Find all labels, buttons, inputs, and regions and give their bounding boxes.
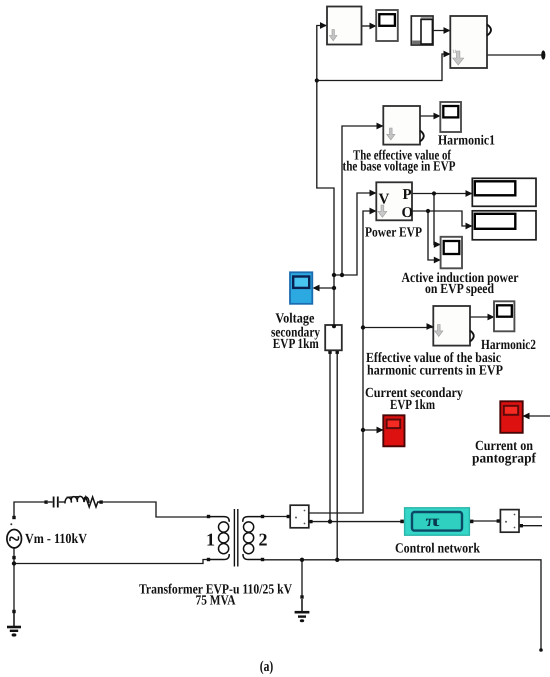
svg-text:2: 2 bbox=[259, 530, 268, 550]
wire RLC branch to transformer primary top bbox=[101, 502, 207, 517]
scope Current secondary EVP 1km (red) bbox=[383, 415, 404, 446]
wire CM1 output to Control network bbox=[311, 521, 402, 523]
arrowhead into Scope1 bbox=[370, 23, 377, 30]
block voltage measurement VM bbox=[325, 324, 342, 350]
wire bottom-left return bus bbox=[14, 546, 207, 564]
wire voltage-measure trunk (V signal up to RMS1) bbox=[317, 26, 334, 326]
wire branch to red scope Current secondary bbox=[363, 429, 383, 431]
label Vm - 110kV bbox=[25, 532, 87, 547]
block pi section line Control network bbox=[405, 508, 470, 535]
svg-text:(a): (a) bbox=[260, 659, 274, 675]
block U3 effective value of base voltage bbox=[383, 106, 423, 145]
port square Control network left bbox=[400, 520, 404, 524]
port square RLC left bbox=[44, 500, 47, 503]
label Power EVP bbox=[365, 226, 422, 241]
junction node P branch bbox=[432, 191, 436, 195]
arrowhead into Power EVP input 2 bbox=[370, 208, 377, 215]
svg-text:Control network: Control network bbox=[395, 542, 480, 557]
label Harmonic2 bbox=[481, 338, 536, 353]
junction node source at return bus bbox=[12, 561, 16, 565]
display Display1 bbox=[472, 178, 536, 206]
label Current on pantograpf bbox=[472, 439, 536, 467]
wire transformer secondary top to current measure CM1 bbox=[264, 516, 290, 518]
svg-text:the base voltage in EVP: the base voltage in EVP bbox=[343, 160, 456, 175]
wire V signal to Power EVP input V bbox=[334, 193, 376, 275]
wire selector to subsystem U2 upper input bbox=[433, 30, 450, 32]
arrowhead into blue scope bbox=[313, 285, 320, 292]
junction node measure lead B on bus bbox=[335, 558, 339, 562]
arrowhead into scope Harmonic1 bbox=[434, 113, 441, 120]
port square ground2 lead bbox=[300, 595, 303, 598]
wire secondary return bus to right and down bbox=[264, 560, 541, 650]
arrowhead into U3 bbox=[377, 123, 384, 130]
port square Control network right bbox=[470, 520, 474, 524]
svg-text:Harmonic1: Harmonic1 bbox=[438, 134, 495, 149]
port square transformer secondary bottom bbox=[261, 558, 264, 561]
port square CM2 input bbox=[497, 519, 500, 522]
arrowhead into red scope Current on pantograpf bbox=[523, 413, 530, 420]
node end cap of bus lower right bbox=[539, 648, 543, 652]
arrowhead into red scope Current secondary bbox=[377, 427, 384, 434]
label Current secondary EVP 1km bbox=[365, 386, 463, 413]
port square transformer secondary top bbox=[261, 515, 264, 518]
block selector (buffer) bbox=[411, 16, 433, 45]
arrowhead into scope Harmonic2 bbox=[488, 314, 495, 321]
port square source top bbox=[12, 516, 15, 519]
arrowhead into scope U5 input 2 bbox=[434, 257, 441, 264]
port square transformer primary top bbox=[207, 515, 210, 518]
arrowhead into Display2 bbox=[466, 223, 473, 230]
scope Harmonic1 bbox=[440, 102, 461, 132]
wire branch to effective-currents block U4 bbox=[363, 327, 433, 329]
label Effective value of the basic harmonic currents in EVP bbox=[366, 351, 503, 379]
RLC branch resistor bbox=[84, 497, 101, 507]
transformer secondary winding bbox=[243, 517, 262, 560]
label Transformer EVP-u 110/25 kV 75 MVA bbox=[139, 582, 292, 608]
junction node current trunk to red scope bbox=[361, 428, 365, 432]
svg-text:V: V bbox=[379, 192, 390, 208]
arrowhead into Power EVP input V bbox=[370, 190, 377, 197]
block current measurement CM1 bbox=[290, 505, 309, 528]
arrowhead into U4 bbox=[427, 323, 434, 330]
junction node V trunk at Power branch bbox=[332, 273, 336, 277]
port square voltage-measure lead B bbox=[336, 351, 339, 354]
wire effective-currents U4 to scope Harmonic2 bbox=[470, 316, 494, 318]
wire voltage-measure lead A bbox=[329, 352, 331, 522]
AC source Vm bbox=[7, 523, 22, 548]
label Active induction power on EVP speed bbox=[402, 271, 519, 297]
transformer primary winding bbox=[210, 517, 229, 560]
scope Current on pantograpf (red) bbox=[500, 401, 522, 433]
wire from right edge into red scope Current on pantograpf bbox=[523, 415, 550, 417]
svg-text:Voltage: Voltage bbox=[275, 312, 314, 327]
subsystem U2 (thd computation) bbox=[450, 16, 491, 68]
port square source ground lead bbox=[12, 610, 15, 613]
wire CM2 bottom output to right edge bbox=[521, 525, 542, 527]
label winding 2 bbox=[259, 530, 268, 550]
ground G2 (return bus) bbox=[295, 599, 310, 622]
ground G1 (source) bbox=[7, 613, 21, 637]
label Voltage secondary EVP 1km bbox=[271, 312, 320, 352]
wire effective-value U3 to scope Harmonic1 bbox=[420, 115, 440, 117]
arrowhead into Display1 bbox=[466, 190, 473, 197]
RLC branch inductor bbox=[65, 496, 89, 503]
svg-text:EVP 1km: EVP 1km bbox=[390, 398, 435, 413]
wire branch O to scope U5 input 2 bbox=[428, 211, 440, 260]
junction node on V trunk feeding U2 branch bbox=[315, 78, 319, 82]
port square transformer primary bottom bbox=[207, 558, 210, 561]
svg-text:u: u bbox=[453, 47, 457, 55]
caption (a) bbox=[260, 659, 274, 675]
wire Control network to current measure CM2 bbox=[472, 520, 500, 522]
wire branch to subsystem U2 lower input bbox=[317, 54, 450, 81]
display Display2 bbox=[472, 211, 536, 240]
svg-text:EVP 1km: EVP 1km bbox=[273, 337, 319, 352]
port square source bottom bbox=[12, 556, 15, 559]
scope U5 active induction power bbox=[441, 237, 462, 268]
junction node ground2 on bus bbox=[300, 558, 304, 562]
junction node CM1 output at measure lead A bbox=[328, 519, 332, 523]
block RMS1 (rms of base voltage) bbox=[327, 7, 362, 45]
RLC branch capacitor bbox=[48, 497, 65, 508]
arrowhead into scope U5 input 1 bbox=[434, 241, 441, 248]
junction node on branch to U3 bbox=[340, 273, 344, 277]
svg-text:1: 1 bbox=[206, 530, 215, 550]
port square CM2 bottom output bbox=[520, 524, 523, 527]
svg-text:on EVP speed: on EVP speed bbox=[425, 282, 494, 297]
wire branch to effective-value block U3 bbox=[342, 126, 383, 275]
wire branch P to scope U5 input 1 bbox=[434, 194, 440, 245]
scope Scope1 bbox=[376, 10, 398, 41]
arrowhead into U2 input 1 bbox=[444, 27, 451, 34]
port square RLC right bbox=[99, 500, 102, 503]
svg-text:harmonic currents in EVP: harmonic currents in EVP bbox=[367, 364, 503, 379]
port square CM1 input bbox=[287, 515, 290, 518]
junction node O branch bbox=[426, 209, 430, 213]
svg-text:75 MVA: 75 MVA bbox=[196, 594, 237, 609]
block Power EVP bbox=[376, 182, 413, 221]
wire current-measure trunk up to Power EVP input 2 bbox=[309, 211, 376, 513]
wire ground 2 stem bbox=[301, 560, 303, 597]
block current measurement CM2 bbox=[500, 510, 519, 533]
svg-text:π: π bbox=[426, 513, 440, 530]
block U4 effective value of harmonic currents bbox=[433, 306, 473, 346]
wire AC source to RLC branch bbox=[14, 502, 46, 517]
svg-text:Power EVP: Power EVP bbox=[365, 226, 422, 241]
label winding 1 bbox=[206, 530, 215, 550]
svg-text:O: O bbox=[402, 205, 414, 221]
label Harmonic1 bbox=[438, 134, 495, 149]
wire voltage-measure lead B bbox=[336, 352, 338, 560]
node terminator of U2 output line bbox=[541, 50, 545, 59]
svg-text:pantograpf: pantograpf bbox=[472, 452, 536, 467]
wire subsystem U2 output to right edge bbox=[487, 54, 543, 56]
junction node current trunk to U4 bbox=[361, 325, 365, 329]
transformer core bbox=[234, 509, 237, 567]
junction node blue scope branch bbox=[332, 286, 336, 290]
wire CM2 top output to right edge bbox=[519, 516, 542, 518]
scope Voltage secondary EVP 1km (blue) bbox=[290, 272, 312, 304]
label Control network bbox=[395, 542, 480, 557]
arrowhead into RMS1 bbox=[320, 22, 327, 29]
arrowhead into U2 input 2 bbox=[444, 51, 451, 58]
wire source ground stem bbox=[13, 564, 15, 612]
wire branch to blue scope Voltage secondary bbox=[314, 287, 334, 289]
svg-text:P: P bbox=[403, 187, 412, 203]
wire RMS1 to Scope1 bbox=[362, 25, 377, 27]
port square voltage-measure lead A bbox=[328, 351, 331, 354]
label The effective value of the base voltage in EVP bbox=[343, 148, 456, 174]
wire Power EVP output P to Display1 bbox=[412, 193, 472, 195]
wire Power EVP output O to Display2 bbox=[412, 211, 472, 226]
svg-text:Vm - 110kV: Vm - 110kV bbox=[25, 532, 87, 547]
scope Harmonic2 bbox=[494, 301, 514, 331]
port square CM1 output bbox=[309, 520, 312, 523]
